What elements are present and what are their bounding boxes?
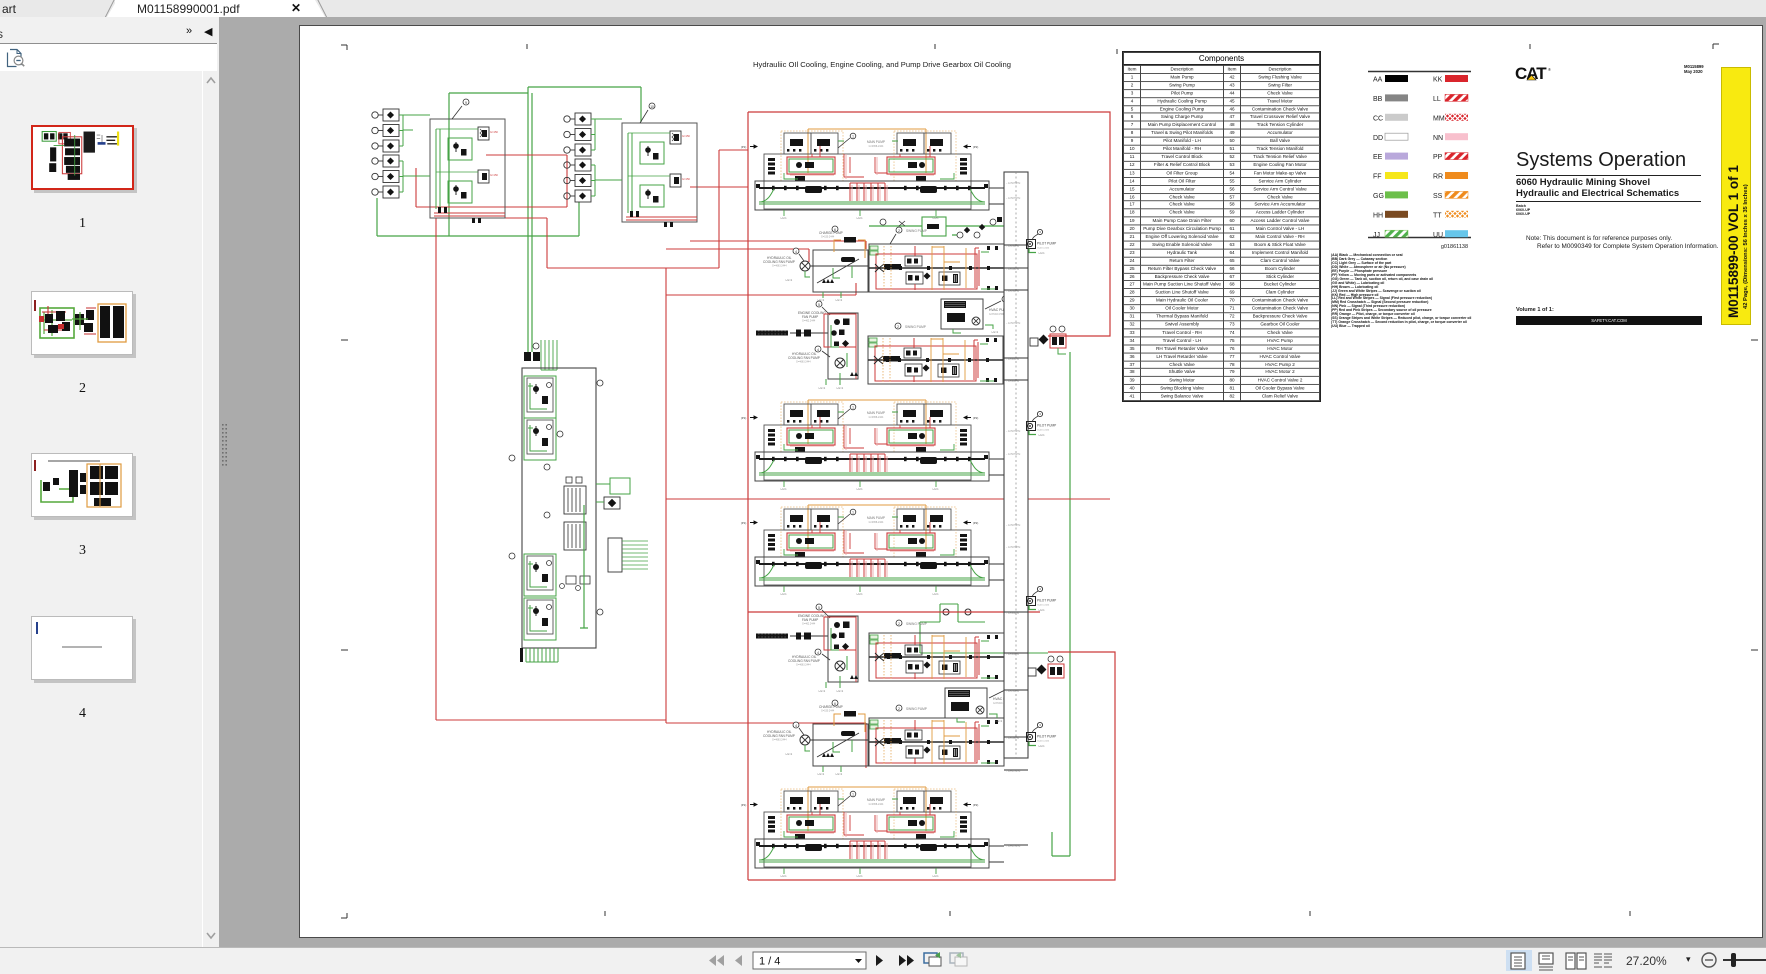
svg-text:RR: RR xyxy=(1433,174,1443,181)
svg-text:SWING PUMP: SWING PUMP xyxy=(906,622,927,626)
HVAC pump assembly HV1 xyxy=(941,296,1010,334)
svg-text:SWING PUMP: SWING PUMP xyxy=(906,707,927,711)
main pump block MP4 xyxy=(741,787,989,878)
check valve right xyxy=(596,497,620,509)
svg-text:←G=5076PSI: ←G=5076PSI xyxy=(1006,182,1021,185)
svg-text:42 Page, (Dimensions: 56 Inche: 42 Page, (Dimensions: 56 Inches x 35 Inc… xyxy=(1743,184,1749,309)
pilot pump P3d xyxy=(1027,722,1057,748)
page xyxy=(299,25,1763,938)
svg-text:®: ® xyxy=(1548,67,1551,72)
wire: green right riser xyxy=(1052,352,1070,856)
page title xyxy=(582,60,1182,69)
svg-text:9: 9 xyxy=(465,101,467,105)
wire: red left trunk xyxy=(747,112,749,880)
filter and relief control block U1 xyxy=(430,119,505,223)
tab bar xyxy=(0,0,1766,17)
title block xyxy=(1516,149,1686,172)
wire: red center riser xyxy=(666,268,866,768)
wire: red branch to fan pumps xyxy=(666,249,856,295)
swing pump label SW2 xyxy=(895,323,926,329)
svg-text:SWING PUMP: SWING PUMP xyxy=(905,325,926,329)
svg-text:NN: NN xyxy=(1433,135,1443,142)
registration tick marks xyxy=(341,44,1758,918)
wire: green double drop to tank xyxy=(528,87,532,352)
swing pump label SW3 xyxy=(896,620,927,626)
pilot manifold valve stack B2 xyxy=(564,159,595,202)
suction cell 28b xyxy=(527,600,553,634)
pilot pump P3b xyxy=(1027,411,1057,437)
wire: green stack links xyxy=(403,115,622,180)
doc number xyxy=(1684,64,1734,74)
svg-text:FF: FF xyxy=(1373,174,1382,181)
wire: green supply top loop xyxy=(377,87,641,236)
sidebar xyxy=(0,17,219,947)
pilot pump P3a xyxy=(1027,229,1057,255)
svg-text:UU: UU xyxy=(1433,232,1443,239)
svg-text:2: 2 xyxy=(897,325,899,329)
swing pump label SW4 xyxy=(896,705,927,711)
green standpipe xyxy=(580,505,588,628)
hydraulic tank assembly T23 xyxy=(509,340,648,662)
HVAC pump assembly HV2 xyxy=(945,685,1014,723)
legend xyxy=(1360,66,1520,366)
svg-text:1 / 4: 1 / 4 xyxy=(759,956,780,968)
svg-text:DD: DD xyxy=(1373,135,1383,142)
green accumulator box xyxy=(596,478,630,494)
swivel outlet valves V32b xyxy=(1028,656,1064,678)
CAT logo xyxy=(1515,64,1555,86)
svg-text:JJ: JJ xyxy=(1373,232,1380,239)
thermal manifold xyxy=(608,538,648,572)
svg-text:HH: HH xyxy=(1373,212,1383,219)
main pump block MP2 xyxy=(741,400,989,491)
svg-text:←G=5076PSI: ←G=5076PSI xyxy=(1006,546,1021,549)
swing pump SW4 xyxy=(869,718,1004,766)
wire: block to column stubs xyxy=(989,188,1028,862)
color notes xyxy=(1331,254,1501,329)
svg-text:2: 2 xyxy=(898,707,900,711)
svg-text:←G=5076PSI: ←G=5076PSI xyxy=(1006,322,1021,325)
svg-text:AA: AA xyxy=(1373,77,1383,84)
pilot manifold valve stack A2 xyxy=(372,155,403,198)
svg-text:←G=5076PSI: ←G=5076PSI xyxy=(1006,524,1021,527)
charge pump CH1 xyxy=(763,226,868,302)
suction cell 28a xyxy=(527,556,553,590)
wire: red long cross xyxy=(666,498,1110,500)
main pump block MP3 xyxy=(741,505,989,596)
engine cooling fan assembly EC2 xyxy=(756,604,858,693)
svg-text:TT: TT xyxy=(1433,212,1442,219)
svg-text:M0115899-00 VOL 1 of 1: M0115899-00 VOL 1 of 1 xyxy=(1726,165,1741,318)
bottom bar xyxy=(0,947,1766,974)
yellow banner xyxy=(1721,67,1751,325)
tank suction comb xyxy=(526,648,558,662)
wire: red loop lower-right xyxy=(748,612,1115,880)
return filter F24b xyxy=(564,522,586,550)
svg-text:2: 2 xyxy=(898,229,900,233)
svg-text:←G=5076PSI: ←G=5076PSI xyxy=(1006,197,1021,200)
engine cooling fan assembly EC1 xyxy=(756,301,858,390)
pilot pump P3c xyxy=(1027,586,1057,612)
suction valves xyxy=(560,576,591,591)
return filter F24 xyxy=(564,477,586,514)
pilot manifold valve stack B1 xyxy=(564,113,595,156)
suction cell 27b xyxy=(527,420,553,454)
callout nodes xyxy=(509,343,603,615)
components table xyxy=(1122,51,1321,402)
svg-text:2: 2 xyxy=(898,622,900,626)
suction cell 27a xyxy=(527,378,553,412)
svg-text:KK: KK xyxy=(1433,77,1443,84)
svg-text:CC: CC xyxy=(1373,115,1383,122)
svg-text:SS: SS xyxy=(1433,193,1443,200)
swivel assembly column 32 xyxy=(1004,172,1028,848)
wire: red mains left xyxy=(416,150,866,720)
svg-text:10: 10 xyxy=(650,105,654,109)
swing pump label SW1 xyxy=(890,227,927,244)
svg-text:BB: BB xyxy=(1373,96,1383,103)
filter and relief control block U2 xyxy=(622,123,697,227)
callout node 10 xyxy=(640,103,655,123)
svg-text:EE: EE xyxy=(1373,154,1383,161)
svg-text:←G=5076PSI: ←G=5076PSI xyxy=(1006,430,1021,433)
pilot manifold valve stack A1 xyxy=(372,109,403,152)
svg-text:MM: MM xyxy=(1433,115,1445,122)
callout node 9 xyxy=(452,99,469,119)
svg-text:PP: PP xyxy=(1433,154,1443,161)
svg-text:g01861138: g01861138 xyxy=(1441,244,1468,250)
svg-text:LL: LL xyxy=(1433,96,1441,103)
svg-text:SWING PUMP: SWING PUMP xyxy=(906,229,927,233)
svg-text:GG: GG xyxy=(1373,193,1384,200)
main pump block MP1 xyxy=(741,129,989,220)
swing pump SW2 xyxy=(868,336,1003,384)
swing pump SW1 xyxy=(869,217,1004,292)
swing pump SW3 xyxy=(869,633,1004,681)
swivel outlet valves V32 xyxy=(1030,326,1066,354)
wire: red loop upper-right xyxy=(748,112,1110,336)
svg-text:←G=5076PSI: ←G=5076PSI xyxy=(1006,453,1021,456)
charge pump CH2 xyxy=(763,700,868,776)
wire: green return steps xyxy=(920,604,1048,653)
